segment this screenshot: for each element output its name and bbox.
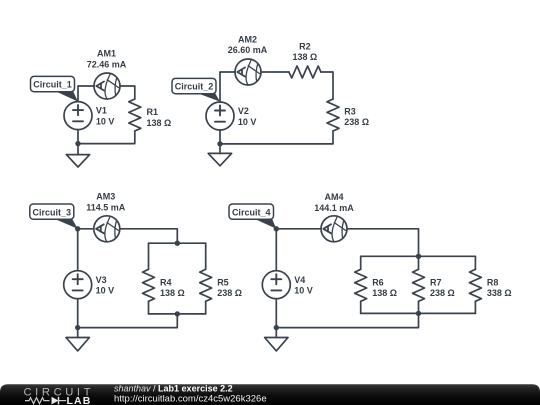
wire node to ammeter AM2 [220,72,235,102]
junction dot circuit3 node [75,226,80,231]
svg-text:Circuit_3: Circuit_3 [33,207,72,217]
node flag Circuit_2 [172,78,220,101]
ammeter U:AM3 [94,216,120,242]
wire V3 to ground node [77,299,79,328]
svg-text:238 Ω: 238 Ω [344,117,369,127]
resistor R7 [413,269,425,301]
wire rail to R7 [418,256,420,269]
junction dot top rail circuit4 [416,254,421,259]
junction dot circuit1 [75,141,80,146]
ground GND4 [265,328,288,351]
svg-text:138 Ω: 138 Ω [160,288,185,298]
wire R1 to bottom node [78,131,135,144]
svg-text:V3: V3 [96,275,107,285]
svg-text:144.1 mA: 144.1 mA [314,203,354,213]
wire R5 to bottom rail [205,301,207,314]
ammeter U:AM1 [94,73,120,99]
svg-text:Circuit_1: Circuit_1 [33,80,72,90]
wire node to ammeter AM3 [78,228,94,230]
wire node to ammeter AM4 [276,228,321,230]
svg-text:R5: R5 [217,277,229,287]
junction dot circuit4 ground [274,325,279,330]
node flag Circuit_1 [31,76,79,101]
voltage source V3 [64,271,92,299]
node flag Circuit_4 [229,204,276,229]
wire R4 to bottom rail [148,301,150,314]
junction dot circuit4 node [274,226,279,231]
svg-text:V4: V4 [294,275,305,285]
svg-text:AM3: AM3 [96,192,115,202]
svg-text:AM2: AM2 [238,34,257,44]
wire V1 to ground node [77,130,79,144]
wire R7 to bottom rail [418,301,420,313]
svg-text:AM4: AM4 [324,192,343,202]
svg-text:114.5 mA: 114.5 mA [86,203,126,213]
wire V2 to ground node [219,130,221,144]
svg-text:138 Ω: 138 Ω [147,118,172,128]
svg-text:R8: R8 [487,277,499,287]
svg-text:10 V: 10 V [238,117,257,127]
wire V4 to ground node [275,299,277,328]
wire rail to R6 [360,256,362,269]
wire rail to R8 [474,256,476,269]
wire top rail circuit4 [361,255,476,257]
svg-text:AM1: AM1 [97,49,116,59]
svg-text:R6: R6 [372,277,384,287]
wire R8 to bottom rail [474,301,476,313]
wire bottom rail circuit4 [361,312,476,314]
wire top rail circuit3 [149,242,206,244]
svg-text:V2: V2 [238,106,249,116]
ground GND3 [66,328,89,351]
wire AM3 to parallel top rail [120,229,178,243]
svg-text:138 Ω: 138 Ω [372,288,397,298]
wire AM1 to R1 [120,86,135,99]
junction dot bottom rail circuit3 [175,311,180,316]
svg-text:R3: R3 [344,106,356,116]
wire rail to R4 [148,243,150,269]
svg-text:238 Ω: 238 Ω [430,288,455,298]
svg-text:338 Ω: 338 Ω [487,288,512,298]
wire R6 to bottom rail [360,301,362,313]
svg-text:R7: R7 [430,277,442,287]
svg-text:138 Ω: 138 Ω [293,52,318,62]
svg-text:238 Ω: 238 Ω [217,288,242,298]
voltage source V2 [206,102,234,130]
voltage source V4 [262,271,290,299]
junction dot circuit3 ground [75,325,80,330]
svg-text:LAB: LAB [67,395,92,405]
resistor R2 [289,66,321,78]
svg-text:R1: R1 [147,107,159,117]
svg-text:V1: V1 [96,106,107,116]
resistor R6 [355,269,367,301]
svg-text:R4: R4 [160,277,172,287]
junction dot top rail circuit3 [175,241,180,246]
wire rail to R5 [205,243,207,269]
svg-text:10 V: 10 V [294,286,313,296]
wire node to V4 [275,229,277,271]
svg-text:10 V: 10 V [96,286,115,296]
junction dot bottom rail circuit4 [416,311,421,316]
ground GND1 [66,144,89,167]
resistor R5 [200,269,212,301]
svg-text:http://circuitlab.com/cz4c5w26: http://circuitlab.com/cz4c5w26k326e [114,394,267,405]
voltage source V1 [64,102,92,130]
node flag Circuit_3 [30,204,78,229]
wire node to ammeter AM1 [78,86,94,102]
junction dot circuit2 [217,141,222,146]
wire R2 to R3 [321,72,333,99]
resistor R8 [469,269,481,301]
wire R3 to bottom node [220,131,333,144]
ground GND2 [208,144,231,166]
wire AM2 to R2 [261,71,289,73]
svg-text:shanthav / Lab1 exercise 2.2: shanthav / Lab1 exercise 2.2 [114,384,233,394]
svg-text:72.46 mA: 72.46 mA [87,59,127,69]
resistor R3 [327,99,339,131]
svg-text:10 V: 10 V [96,117,115,127]
ammeter U:AM2 [235,59,261,85]
svg-text:R2: R2 [299,41,311,51]
logo resistor zigzag [25,398,50,404]
wire node to V3 [77,229,79,271]
svg-text:26.60 mA: 26.60 mA [228,45,268,55]
svg-text:Circuit_4: Circuit_4 [232,207,271,217]
wire bottom rail to ground run circuit4 [276,313,418,327]
logo diode [52,397,67,405]
ammeter U:AM4 [321,216,347,242]
footer bar [0,384,540,405]
wire AM4 to parallel top rail [347,229,419,256]
wire bottom rail to ground run [78,314,178,328]
resistor R4 [143,269,155,301]
wire bottom rail circuit3 [149,313,206,315]
resistor R1 [129,99,141,131]
svg-text:Circuit_2: Circuit_2 [175,82,214,92]
